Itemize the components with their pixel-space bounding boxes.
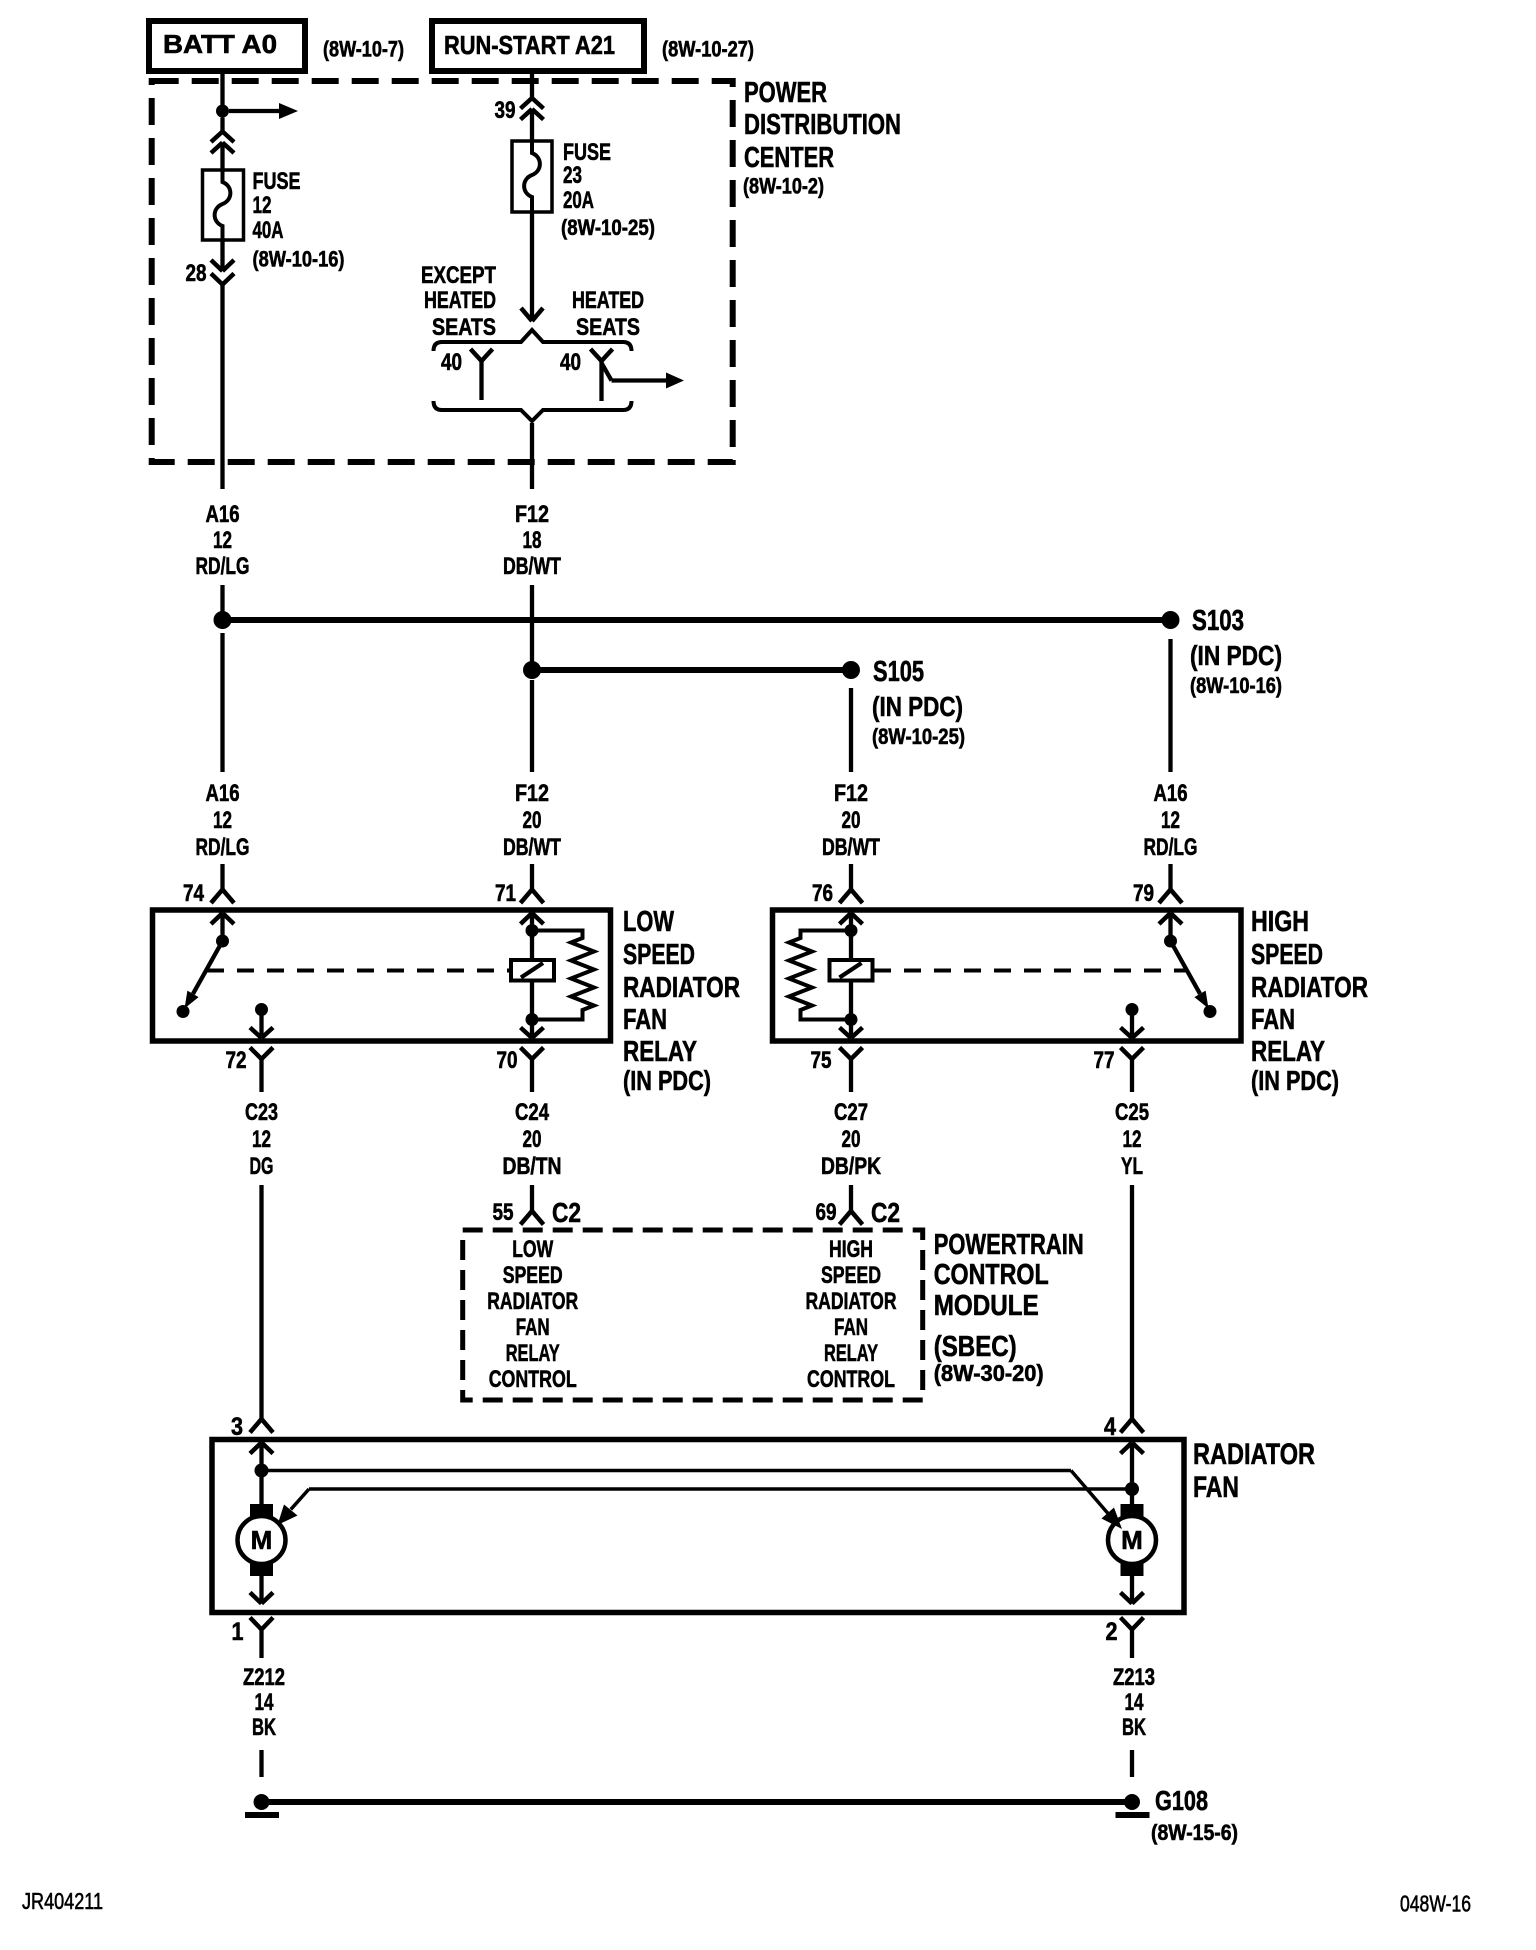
svg-text:20: 20 <box>842 807 861 834</box>
svg-text:FAN: FAN <box>1251 1004 1295 1036</box>
svg-text:RADIATOR: RADIATOR <box>1193 1438 1315 1471</box>
label FUSE 23 20A (8W-10-25) <box>561 139 655 240</box>
ground node G108 <box>1116 1794 1150 1815</box>
wire label C27 20 DB/PK <box>821 1099 882 1180</box>
wire label C25 12 YL <box>1115 1099 1149 1180</box>
svg-text:1: 1 <box>232 1618 244 1646</box>
svg-text:RADIATOR: RADIATOR <box>1251 972 1368 1004</box>
ground node left <box>245 1794 279 1815</box>
svg-text:Z213: Z213 <box>1113 1664 1155 1691</box>
svg-text:HEATED: HEATED <box>572 287 644 314</box>
svg-text:JR404211: JR404211 <box>22 1888 103 1914</box>
pin 40 connector (except heated seats) <box>471 349 493 400</box>
svg-text:12: 12 <box>213 527 232 554</box>
ground bus wire <box>262 1799 1133 1805</box>
relay control dashed linkage (high) <box>874 969 1186 973</box>
svg-text:79: 79 <box>1133 880 1154 907</box>
svg-text:SPEED: SPEED <box>503 1262 563 1289</box>
svg-text:RELAY: RELAY <box>623 1036 697 1068</box>
label G108 (8W-15-6) <box>1151 1785 1238 1845</box>
svg-text:2: 2 <box>1106 1618 1118 1646</box>
PCM pin 69 connector C2 <box>816 1197 901 1228</box>
wire into relay pin at x=851 <box>849 864 853 890</box>
relay coil node top (pin 71) <box>526 924 539 960</box>
wire A16 splice to relay 74 <box>220 633 224 772</box>
relay contact node (pin 77) <box>1121 1003 1144 1038</box>
svg-text:SPEED: SPEED <box>821 1262 881 1289</box>
svg-text:C24: C24 <box>515 1099 550 1126</box>
wire label C24 20 DB/TN <box>503 1099 562 1180</box>
svg-text:12: 12 <box>253 192 272 219</box>
fuse-block feed box RUN-START A21 <box>432 21 644 71</box>
svg-text:20: 20 <box>523 1126 542 1153</box>
relay contact node (pin 72) <box>250 1003 273 1038</box>
svg-text:12: 12 <box>1161 807 1180 834</box>
pin 39 connector chevrons <box>521 98 544 141</box>
wire F12 out of PDC <box>530 423 534 489</box>
relay pin 77 connector <box>1094 1047 1144 1092</box>
wire label A16 12 RD/LG at x=222.5 <box>196 780 250 861</box>
svg-text:LOW: LOW <box>512 1236 553 1263</box>
crossover wire to left motor <box>278 1489 1133 1525</box>
svg-text:(8W-10-16): (8W-10-16) <box>253 247 345 272</box>
radiator fan pin 3 connector <box>231 1413 273 1464</box>
relay pin 79 connector <box>1133 880 1182 938</box>
svg-text:75: 75 <box>811 1047 832 1074</box>
svg-text:DB/PK: DB/PK <box>821 1153 882 1180</box>
relay switch stationary contact (high) <box>1204 1005 1217 1018</box>
relay pin 76 connector <box>812 880 863 938</box>
pin 28 connector chevrons <box>211 240 234 285</box>
fan pin 2 connector <box>1106 1593 1144 1659</box>
fuse 12 40A <box>203 170 244 240</box>
label RADIATOR FAN <box>1193 1438 1315 1504</box>
svg-text:DG: DG <box>250 1153 274 1180</box>
wire C23 to radiator fan pin 3 <box>259 1185 263 1419</box>
svg-text:F12: F12 <box>515 780 549 807</box>
relay coil node bottom (pin 70) <box>521 981 544 1039</box>
svg-text:40: 40 <box>560 349 581 376</box>
powertrain control module dashed box <box>463 1230 923 1400</box>
svg-text:14: 14 <box>255 1689 274 1716</box>
wire F12 into splice S105 <box>530 585 534 664</box>
label POWER DISTRIBUTION CENTER (8W-10-2) <box>743 77 901 199</box>
svg-text:LOW: LOW <box>623 906 674 938</box>
arrow to other circuits <box>229 103 298 119</box>
svg-text:HEATED: HEATED <box>424 287 496 314</box>
fuse 23 20A <box>512 141 552 212</box>
wire C27 to PCM pin 69 <box>849 1185 853 1211</box>
svg-text:(8W-15-6): (8W-15-6) <box>1151 1820 1238 1845</box>
wire label A16 12 RD/LG at x=1170.5 <box>1144 780 1198 861</box>
relay box LOW SPEED RADIATOR FAN RELAY <box>153 910 611 1041</box>
relay box HIGH SPEED RADIATOR FAN RELAY <box>773 910 1242 1041</box>
svg-text:18: 18 <box>523 527 542 554</box>
footer 048W-16 <box>1400 1891 1471 1917</box>
svg-text:HIGH: HIGH <box>1251 906 1309 938</box>
svg-text:FAN: FAN <box>1193 1471 1239 1504</box>
svg-text:12: 12 <box>1123 1126 1142 1153</box>
splice bus S105 <box>523 661 860 679</box>
svg-text:40A: 40A <box>253 217 284 244</box>
svg-text:FAN: FAN <box>623 1004 667 1036</box>
wire label F12 20 DB/WT at x=851 <box>822 780 880 861</box>
wire Z213 to ground <box>1130 1750 1134 1777</box>
fan node pin 4 <box>1125 1482 1139 1496</box>
svg-text:(8W-10-27): (8W-10-27) <box>662 37 754 62</box>
svg-text:RELAY: RELAY <box>824 1340 878 1367</box>
svg-text:SEATS: SEATS <box>432 314 496 341</box>
wire label Z213 14 BK <box>1113 1664 1155 1741</box>
relay coil suppression resistor (high) <box>789 931 845 1020</box>
relay pin 70 connector <box>497 1047 544 1092</box>
svg-text:F12: F12 <box>834 780 868 807</box>
wire F12 splice to relay 76 <box>849 688 853 772</box>
svg-text:39: 39 <box>495 97 516 124</box>
wire BATT A0 feed <box>220 71 224 105</box>
svg-text:70: 70 <box>497 1047 518 1074</box>
svg-text:FAN: FAN <box>516 1314 550 1341</box>
relay pin 75 connector <box>811 1047 863 1092</box>
svg-text:MODULE: MODULE <box>934 1290 1039 1322</box>
label S103 (IN PDC) (8W-10-16) <box>1190 605 1282 698</box>
svg-text:76: 76 <box>812 880 833 907</box>
svg-text:C2: C2 <box>871 1197 900 1228</box>
PCM pin 55 connector C2 <box>493 1197 582 1228</box>
svg-text:RD/LG: RD/LG <box>196 834 250 861</box>
svg-text:BK: BK <box>1122 1714 1146 1741</box>
svg-text:G108: G108 <box>1155 1785 1208 1816</box>
label HIGH SPEED RADIATOR FAN RELAY (IN PDC) <box>1251 906 1368 1096</box>
svg-text:77: 77 <box>1094 1047 1115 1074</box>
reference (8W-10-7) <box>323 37 404 62</box>
wire C24 to PCM pin 55 <box>530 1185 534 1211</box>
svg-text:12: 12 <box>252 1126 271 1153</box>
svg-text:14: 14 <box>1125 1689 1144 1716</box>
svg-text:20A: 20A <box>563 187 594 214</box>
svg-text:POWER: POWER <box>744 77 827 109</box>
wire label A16 12 RD/LG (left, upper) <box>196 501 250 580</box>
wire label Z212 14 BK <box>243 1664 285 1741</box>
relay switch stationary contact <box>177 1005 190 1018</box>
wire label F12 18 DB/WT <box>503 501 561 580</box>
svg-text:C2: C2 <box>552 1197 581 1228</box>
svg-text:SPEED: SPEED <box>623 939 695 971</box>
svg-text:DB/WT: DB/WT <box>503 834 561 861</box>
svg-text:C27: C27 <box>834 1099 868 1126</box>
relay switch common node (pin 79) <box>1164 935 1177 948</box>
relay pin 72 connector <box>226 1047 274 1092</box>
wire F12 from fuse 23 with arrow <box>521 212 543 321</box>
svg-text:CONTROL: CONTROL <box>807 1366 895 1393</box>
svg-text:CENTER: CENTER <box>744 142 834 174</box>
svg-text:55: 55 <box>493 1199 514 1226</box>
bottom distribution brace <box>434 401 632 421</box>
pin 40 (heated seats) label <box>560 349 581 376</box>
svg-text:RD/LG: RD/LG <box>1144 834 1198 861</box>
right fan motor M <box>1108 1489 1156 1604</box>
left fan motor M <box>238 1471 286 1604</box>
pin 40 (except heated seats) label <box>441 349 462 376</box>
svg-text:DB/WT: DB/WT <box>503 553 561 580</box>
svg-text:EXCEPT: EXCEPT <box>421 262 496 289</box>
svg-text:Z212: Z212 <box>243 1664 285 1691</box>
svg-text:72: 72 <box>226 1047 247 1074</box>
label LOW SPEED RADIATOR FAN RELAY (IN PDC) <box>623 906 740 1096</box>
wire label C23 12 DG <box>245 1099 278 1180</box>
pin 28 label <box>186 260 207 287</box>
svg-text:(SBEC): (SBEC) <box>934 1331 1017 1363</box>
power distribution center dashed enclosure <box>152 81 733 462</box>
svg-text:(IN PDC): (IN PDC) <box>623 1065 711 1096</box>
relay coil (solenoid, high) <box>830 960 873 981</box>
svg-text:RD/LG: RD/LG <box>196 553 250 580</box>
wire into relay pin at x=532 <box>530 864 534 890</box>
relay coil suppression resistor <box>538 931 594 1020</box>
svg-text:FAN: FAN <box>834 1314 868 1341</box>
splice node on BATT feed <box>216 105 229 118</box>
svg-text:69: 69 <box>816 1199 837 1226</box>
svg-text:F12: F12 <box>515 501 549 528</box>
pin 39 label <box>495 97 516 124</box>
wire into relay pin at x=222.5 <box>220 864 224 890</box>
svg-text:M: M <box>1121 1525 1143 1555</box>
wire A16 down from fuse 12 <box>220 285 224 490</box>
svg-text:RADIATOR: RADIATOR <box>487 1288 578 1315</box>
wire into relay pin at x=1170.5 <box>1168 864 1172 890</box>
relay coil node bottom (pin 75) <box>840 981 863 1039</box>
svg-text:A16: A16 <box>1154 780 1188 807</box>
svg-text:12: 12 <box>213 807 232 834</box>
crossover wire to right motor <box>262 1471 1123 1530</box>
radiator fan pin 4 connector <box>1104 1413 1144 1483</box>
svg-text:CONTROL: CONTROL <box>489 1366 577 1393</box>
svg-text:SEATS: SEATS <box>576 314 640 341</box>
svg-text:RADIATOR: RADIATOR <box>623 972 740 1004</box>
svg-text:(8W-10-2): (8W-10-2) <box>743 174 824 199</box>
pin 40 connector (heated seats) with arrow <box>591 349 685 401</box>
svg-text:S103: S103 <box>1192 605 1244 637</box>
svg-text:A16: A16 <box>206 780 240 807</box>
fan node pin 3 <box>255 1464 269 1478</box>
svg-text:28: 28 <box>186 260 207 287</box>
svg-text:20: 20 <box>842 1126 861 1153</box>
svg-text:71: 71 <box>495 880 516 907</box>
svg-text:(8W-30-20): (8W-30-20) <box>934 1360 1044 1386</box>
wire label F12 20 DB/WT at x=532 <box>503 780 561 861</box>
fuse-block feed box BATT A0 <box>149 21 305 71</box>
svg-text:RUN-START A21: RUN-START A21 <box>444 30 615 60</box>
label HIGH SPEED RADIATOR FAN RELAY CONTROL (in PCM) <box>806 1236 897 1393</box>
wire F12 splice to relay 71 <box>530 680 534 772</box>
wire Z212 to ground <box>259 1750 263 1777</box>
svg-text:(8W-10-25): (8W-10-25) <box>872 724 965 749</box>
svg-text:DB/WT: DB/WT <box>822 834 880 861</box>
svg-text:20: 20 <box>523 807 542 834</box>
relay pin 71 connector <box>495 880 544 938</box>
wire A16 splice to relay 79 <box>1168 639 1172 772</box>
svg-text:HIGH: HIGH <box>829 1236 873 1263</box>
svg-text:(IN PDC): (IN PDC) <box>1190 640 1282 671</box>
svg-text:40: 40 <box>441 349 462 376</box>
splice bus S103 <box>214 611 1180 629</box>
relay pin 74 connector <box>183 880 234 938</box>
relay control dashed linkage <box>207 969 509 973</box>
relay switch arm <box>185 941 223 1009</box>
svg-text:YL: YL <box>1121 1153 1143 1180</box>
wire C25 to radiator fan pin 4 <box>1130 1185 1134 1419</box>
wire RUN-START feed <box>530 71 534 98</box>
footer JR404211 <box>22 1888 103 1914</box>
svg-text:048W-16: 048W-16 <box>1400 1891 1471 1917</box>
svg-text:(8W-10-7): (8W-10-7) <box>323 37 404 62</box>
in-PDC connector chevrons (BATT feed) <box>211 118 234 171</box>
svg-text:(IN PDC): (IN PDC) <box>872 691 963 722</box>
label LOW SPEED RADIATOR FAN RELAY CONTROL (in PCM) <box>487 1236 578 1393</box>
label FUSE 12 40A (8W-10-16) <box>253 168 345 272</box>
svg-text:SPEED: SPEED <box>1251 939 1323 971</box>
svg-text:S105: S105 <box>873 656 924 688</box>
svg-text:C25: C25 <box>1115 1099 1149 1126</box>
svg-text:74: 74 <box>183 880 205 907</box>
svg-text:DISTRIBUTION: DISTRIBUTION <box>744 109 901 141</box>
label S105 (IN PDC) (8W-10-25) <box>872 656 965 749</box>
relay coil node top (pin 76) <box>845 924 858 960</box>
reference (8W-10-27) <box>662 37 754 62</box>
svg-text:POWERTRAIN: POWERTRAIN <box>934 1229 1084 1261</box>
relay coil (solenoid) <box>511 960 554 981</box>
top distribution brace <box>434 330 632 351</box>
svg-text:(8W-10-16): (8W-10-16) <box>1190 673 1282 698</box>
wire A16 into splice S103 <box>220 585 224 618</box>
svg-text:(8W-10-25): (8W-10-25) <box>561 215 655 240</box>
relay switch common node (pin 74) <box>216 935 229 948</box>
relay switch arm (high) <box>1171 941 1209 1009</box>
fan pin 1 connector <box>232 1593 274 1659</box>
svg-text:RELAY: RELAY <box>1251 1036 1325 1068</box>
svg-text:M: M <box>251 1525 273 1555</box>
svg-text:C23: C23 <box>245 1099 278 1126</box>
svg-text:CONTROL: CONTROL <box>934 1259 1049 1291</box>
svg-text:RADIATOR: RADIATOR <box>806 1288 897 1315</box>
label POWERTRAIN CONTROL MODULE (SBEC) (8W-30-20) <box>934 1229 1084 1386</box>
svg-text:(IN PDC): (IN PDC) <box>1251 1065 1339 1096</box>
svg-text:23: 23 <box>563 162 582 189</box>
svg-text:A16: A16 <box>206 501 240 528</box>
label EXCEPT HEATED SEATS <box>421 262 496 341</box>
svg-text:BATT A0: BATT A0 <box>163 29 277 59</box>
svg-text:BK: BK <box>252 1714 276 1741</box>
label HEATED SEATS <box>572 287 644 341</box>
svg-text:FUSE: FUSE <box>253 168 301 195</box>
svg-text:DB/TN: DB/TN <box>503 1153 562 1180</box>
radiator fan box <box>212 1440 1184 1613</box>
svg-text:RELAY: RELAY <box>506 1340 560 1367</box>
